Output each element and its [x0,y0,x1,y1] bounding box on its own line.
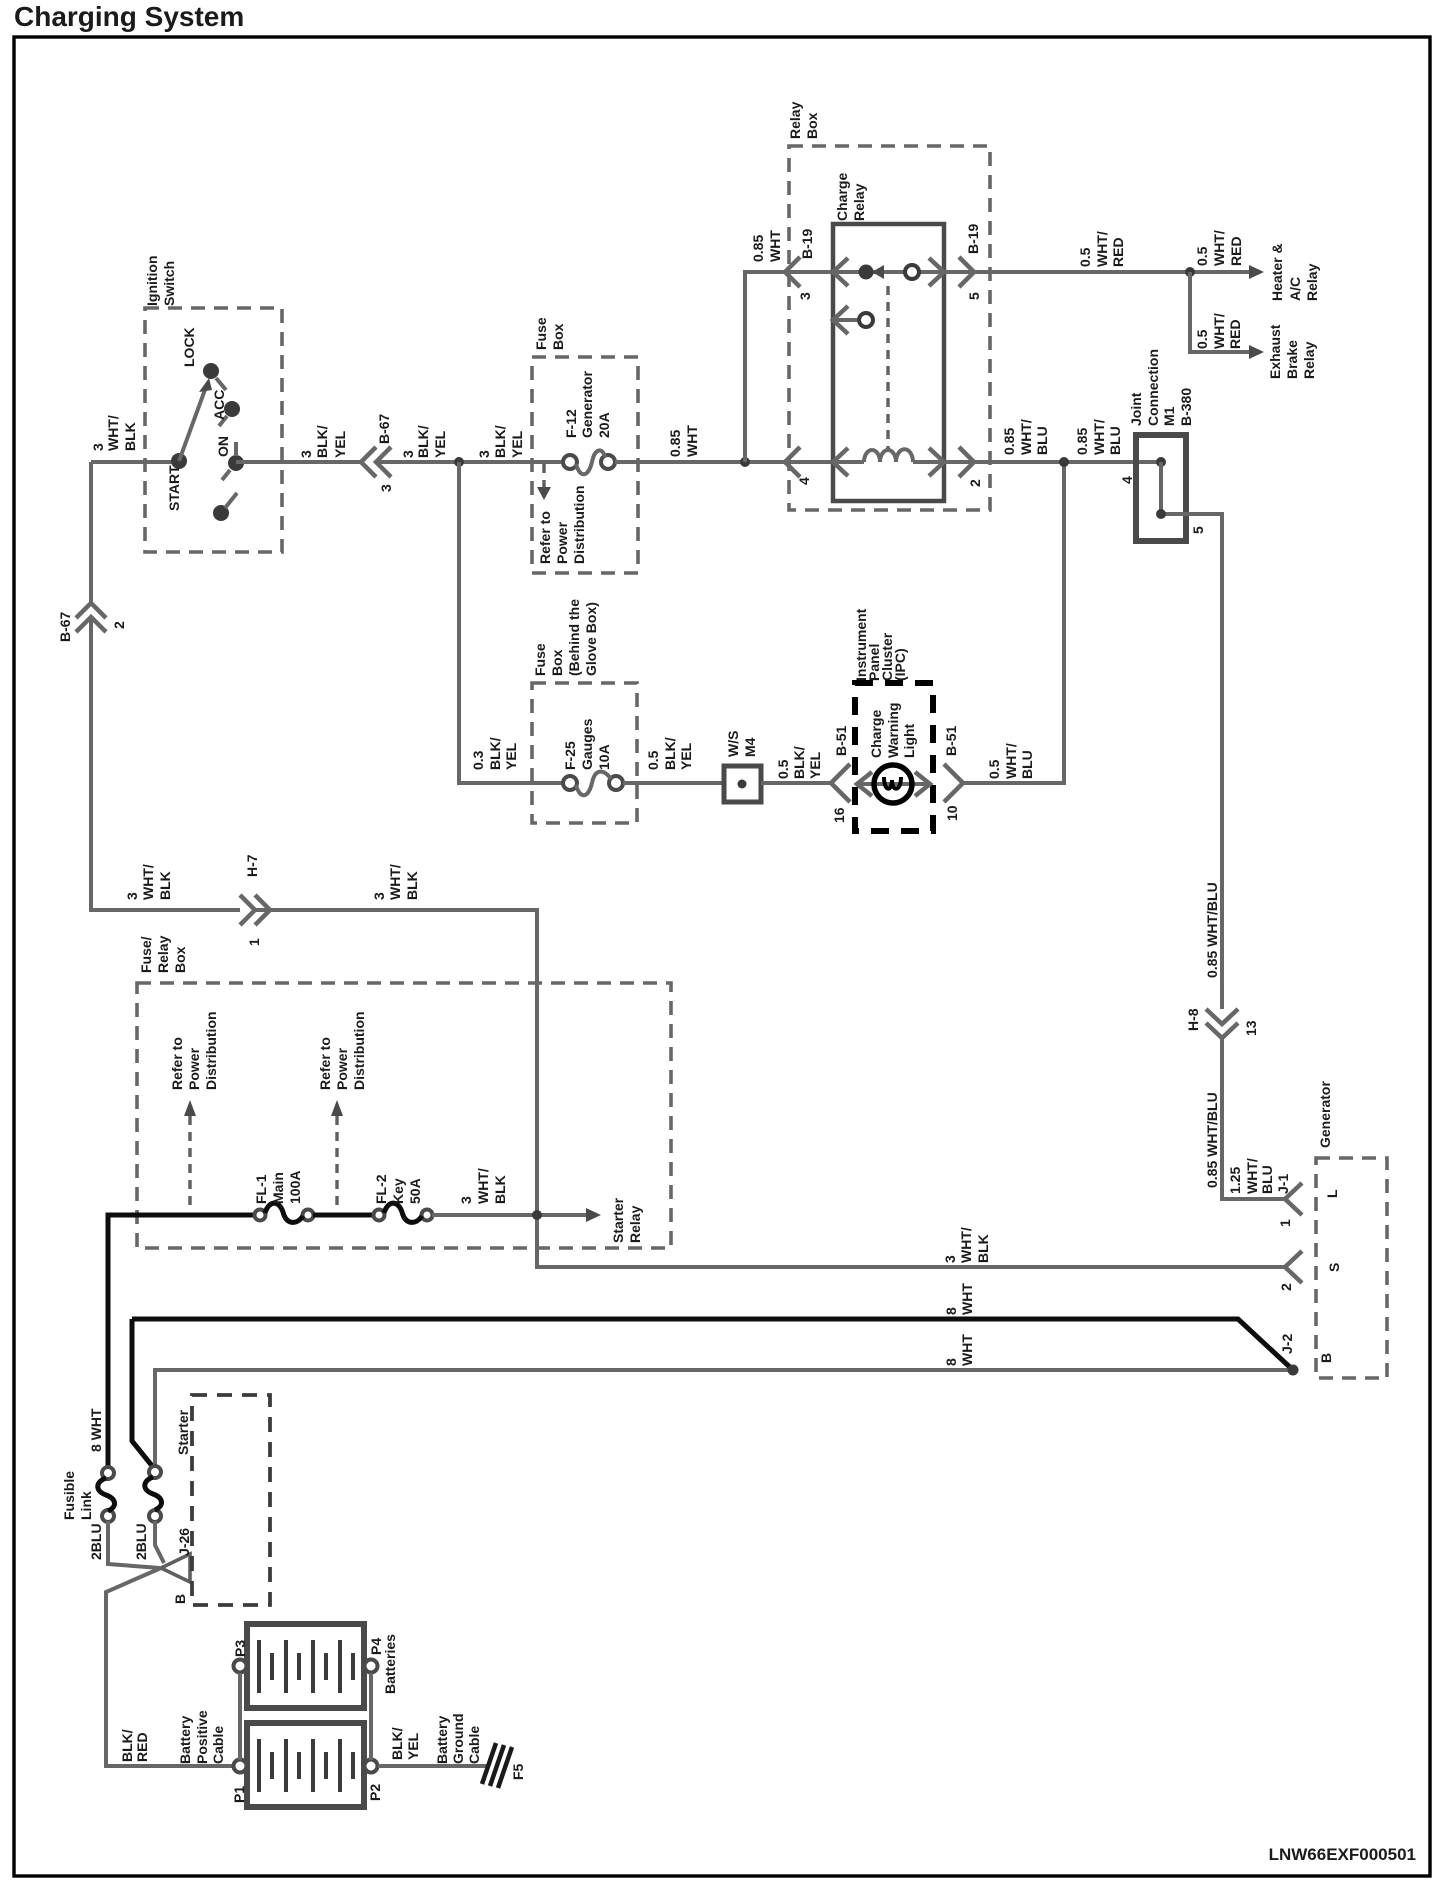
battery 1 (lower) box [247,1723,364,1807]
connector B-51 pin 10 (chevron) [944,764,963,802]
fuse box behind glove box (dashed) [532,683,637,823]
relay alternate contact [833,318,858,322]
svg-text:Relay: Relay [1304,263,1320,301]
fusible link label [61,1471,94,1520]
ground symbol F5 [482,1743,512,1788]
svg-text:4: 4 [1119,476,1135,484]
svg-text:0.85: 0.85 [667,430,683,457]
svg-text:5: 5 [966,292,982,300]
wire label 0.5 BLK/YEL (before splice) [645,737,694,770]
M1 internal link [1156,457,1166,467]
svg-text:Batteries: Batteries [382,1634,398,1694]
svg-text:Starter: Starter [610,1197,626,1243]
relay box (dashed) [789,146,990,510]
svg-text:0.5: 0.5 [986,759,1002,779]
fuse/relay box label [138,935,188,973]
svg-text:2BLU: 2BLU [88,1523,104,1560]
fuse box (dashed) [532,357,638,573]
wire label 3 WHT/BLK (starter relay feed) [458,1168,508,1204]
refer-to-power-distribution arrow 2 (up, dashed) [331,1100,343,1116]
fusible link FL-1 Main 100A [255,1210,266,1221]
svg-text:B-51: B-51 [833,725,849,756]
exhaust brake relay destination label [1267,324,1317,379]
svg-text:Cable: Cable [210,1726,226,1764]
svg-text:Battery: Battery [434,1716,450,1764]
splice W/S M4 [724,766,761,802]
svg-text:YEL: YEL [405,1732,421,1760]
svg-text:F-12: F-12 [563,409,579,438]
wire label 3 WHT/BLK (after H-7) [371,864,420,900]
svg-text:Relay: Relay [1301,341,1317,379]
svg-text:3: 3 [797,292,813,300]
instrument panel cluster label [853,608,908,681]
battery 2 (upper) box [247,1624,364,1708]
svg-text:2: 2 [1278,1283,1294,1291]
connector B-19 pin 4 (chevron at relay box edge) [785,447,800,477]
svg-text:2: 2 [967,479,983,487]
svg-text:1.25: 1.25 [1227,1167,1243,1194]
contact START [213,505,229,521]
svg-text:Refer to: Refer to [537,511,553,564]
svg-text:YEL: YEL [332,430,348,458]
svg-text:YEL: YEL [509,430,525,458]
wire: ignition pivot to left edge [91,460,179,464]
svg-text:FL-1: FL-1 [253,1174,269,1204]
fusible link FL-2 Key 50A [374,1210,385,1221]
charge relay body [833,224,944,501]
joint connection M1 B-380 box [1136,435,1186,541]
connector B-67 (in-line, double chevron) [361,447,376,477]
svg-text:8: 8 [943,1358,959,1366]
svg-text:B-380: B-380 [1178,388,1194,426]
heavy feed wire into FL-1 [108,1215,255,1468]
heavy wire: 8 WHT from fusible link 2 to generator B (J-2) [132,1319,1293,1370]
fuse box label [533,317,566,350]
svg-text:BLK/: BLK/ [119,1729,135,1762]
svg-text:WHT: WHT [959,1334,975,1366]
junction node (charge light tap) [1059,457,1069,467]
svg-text:BLK: BLK [975,1234,991,1263]
svg-text:0.3: 0.3 [470,750,486,770]
svg-text:Relay: Relay [787,101,803,139]
svg-text:B-51: B-51 [943,725,959,756]
svg-text:Power: Power [554,521,570,564]
battery 2 plates [259,1640,353,1693]
svg-text:1: 1 [246,938,262,946]
svg-text:YEL: YEL [432,430,448,458]
svg-text:BLK/: BLK/ [791,746,807,779]
svg-text:BLK/: BLK/ [389,1727,405,1760]
svg-text:Generator: Generator [1317,1081,1333,1148]
svg-text:100A: 100A [287,1171,303,1204]
wire: H-8 down to generator L [1222,1038,1284,1199]
svg-text:B-67: B-67 [376,413,392,444]
relay contact row (pin3-pin5) [833,270,944,274]
wire: B-67 to F-12 fuse [376,460,563,464]
wire label 3 WHT/BLK (left of ignition) [90,415,138,451]
svg-text:Heater &: Heater & [1269,243,1285,301]
svg-text:WHT/: WHT/ [1003,743,1019,779]
wire: P4 to P2 parallel link [369,1673,373,1760]
wire: continue down then right to H-7 [91,617,240,910]
svg-text:RED: RED [1110,237,1126,267]
svg-text:P3: P3 [232,1640,248,1657]
svg-text:2: 2 [111,621,127,629]
wire: P2 to ground [378,1764,489,1768]
svg-text:16: 16 [831,807,847,823]
svg-text:Ground: Ground [450,1713,466,1764]
wire label 0.3 BLK/YEL [470,737,519,770]
svg-text:B: B [172,1594,188,1604]
svg-text:(Behind the: (Behind the [566,599,582,676]
svg-text:3: 3 [458,1196,474,1204]
wire label 0.5 WHT/BLU [986,743,1035,779]
svg-text:3: 3 [298,450,314,458]
svg-text:Positive: Positive [194,1710,210,1764]
relay actuator link (dashed) [886,286,889,452]
svg-text:A/C: A/C [1287,277,1303,301]
svg-text:M1: M1 [1161,406,1177,426]
wire: F-12 to relay box branch junction [615,460,833,464]
svg-text:J-2: J-2 [1279,1334,1295,1354]
svg-text:50A: 50A [407,1178,423,1204]
svg-text:B-67: B-67 [57,611,73,642]
junction node (0.3 BLK/YEL tap) [454,457,464,467]
svg-text:Charging System: Charging System [14,1,244,32]
svg-text:WHT/: WHT/ [140,864,156,900]
wire through IPC with outward arrows [856,782,931,786]
svg-text:H-7: H-7 [244,854,260,877]
svg-text:B: B [1318,1353,1334,1363]
svg-text:Brake: Brake [1284,340,1300,379]
wire: FL-2 to starter relay arrow [432,1213,590,1217]
wire: branch to exhaust brake relay arrow [1190,272,1253,352]
svg-text:YEL: YEL [678,742,694,770]
svg-text:0.85 WHT/BLU: 0.85 WHT/BLU [1204,882,1220,978]
wire label BLK/RED [119,1729,150,1762]
wire: link 1 to J-26 [108,1521,160,1568]
junction node at x537 on FL-2 output [532,1210,542,1220]
contact LOCK [203,363,219,379]
wire label 0.5 WHT/RED (after junction) [1194,230,1244,266]
svg-text:BLK/: BLK/ [662,737,678,770]
svg-text:H-8: H-8 [1185,1008,1201,1031]
svg-text:Glove Box): Glove Box) [583,602,599,676]
svg-text:WHT/: WHT/ [1018,419,1034,455]
connector B-19 pin 2 (chevron at relay box edge) [959,447,974,477]
svg-text:BLU: BLU [1034,426,1050,455]
svg-text:Fusible: Fusible [61,1471,77,1520]
wire: pin 2 to joint connection M1 [944,460,1157,464]
battery ground cable label [434,1713,482,1764]
wire: P3 to P1 parallel link [238,1673,242,1760]
connector B-67 (vertical, double chevron up) [76,603,106,618]
svg-text:Distribution: Distribution [203,1011,219,1090]
svg-text:8 WHT: 8 WHT [88,1408,104,1452]
generator box (dashed) [1316,1158,1387,1378]
terminal P2 [365,1760,378,1773]
battery positive cable label [177,1710,226,1764]
heavy wire: drop to fusible link 2 [132,1319,153,1467]
wire label 1.25 WHT/BLU and connector J-1 [1227,1158,1291,1194]
svg-text:Relay: Relay [155,935,171,973]
fuse/relay box (dashed) [137,983,671,1248]
svg-text:FL-2: FL-2 [373,1174,389,1204]
svg-text:Refer to: Refer to [317,1037,333,1090]
wire label 8 WHT (parallel run) [943,1334,975,1366]
connector J-26 (triangle) [161,1554,190,1582]
svg-text:Ignition: Ignition [144,255,160,306]
svg-text:BLK: BLK [122,422,138,451]
svg-text:(IPC): (IPC) [892,648,908,681]
wire label BLK/YEL [389,1727,421,1760]
svg-text:Gauges: Gauges [579,718,595,770]
svg-text:WHT/: WHT/ [1244,1158,1260,1194]
svg-text:3: 3 [942,1255,958,1263]
svg-text:5: 5 [1190,526,1206,534]
relay box label [787,101,820,139]
svg-text:Fuse: Fuse [532,643,548,676]
svg-text:0.85 WHT/BLU: 0.85 WHT/BLU [1204,1092,1220,1188]
svg-text:Refer to: Refer to [169,1037,185,1090]
svg-text:Box: Box [804,112,820,139]
svg-text:WHT/: WHT/ [1091,419,1107,455]
svg-text:RED: RED [134,1732,150,1762]
wire: pin 5 to heater A/C relay arrow [944,270,1253,274]
svg-text:3: 3 [124,892,140,900]
svg-text:M4: M4 [742,737,758,757]
fuse F-12 Generator 20A [563,455,577,469]
relay coil row (pin4-pin2) [833,460,864,464]
fusible link 2 [149,1466,161,1478]
connector H-8 (vertical, double chevron down) [1206,1009,1238,1024]
svg-text:YEL: YEL [503,742,519,770]
svg-text:YEL: YEL [807,751,823,779]
svg-text:BLK: BLK [157,871,173,900]
wire label 0.85 WHT (after F-12) [667,425,700,457]
wire: B-51 pin10 right then up to junction [963,462,1064,783]
svg-text:P2: P2 [367,1784,383,1801]
svg-text:Box: Box [172,946,188,973]
fuse box (behind the glove box) label [532,599,599,676]
wire label 3 BLK/YEL (after B-67) [400,425,448,458]
svg-text:0.5: 0.5 [1194,329,1210,349]
svg-text:S: S [1326,1263,1342,1272]
svg-text:Fuse/: Fuse/ [138,936,154,973]
svg-text:Power: Power [186,1047,202,1090]
svg-text:Box: Box [549,649,565,676]
svg-text:Distribution: Distribution [351,1011,367,1090]
svg-text:LOCK: LOCK [181,327,197,367]
wire label 8 WHT (heavy run) [943,1283,975,1315]
svg-text:Connection: Connection [1145,349,1161,426]
svg-text:0.85: 0.85 [750,235,766,262]
svg-text:BLK/: BLK/ [487,737,503,770]
instrument panel cluster box (heavy dashed) [855,683,933,831]
svg-text:Relay: Relay [851,183,867,221]
svg-text:Relay: Relay [627,1205,643,1243]
svg-text:Fuse: Fuse [533,317,549,350]
wire label 3 WHT/BLK (before H-7) [124,864,173,900]
wire: F-25 to W/S M4 splice [623,781,724,785]
charge warning light label [868,703,917,758]
svg-text:B-19: B-19 [799,228,815,259]
svg-text:L: L [1324,1189,1340,1198]
svg-text:0.85: 0.85 [1001,428,1017,455]
svg-text:1: 1 [1277,1219,1293,1227]
svg-text:WHT/: WHT/ [475,1168,491,1204]
starter box (dashed) [192,1395,270,1605]
wire label 3 BLK/YEL (before B-67) [298,425,348,458]
wire: 8 WHT parallel run to generator B [155,1370,1293,1467]
wire: link 2 to J-26 [155,1521,164,1563]
connector B-19 pin 3 (chevron at relay box edge) [785,257,800,287]
svg-text:WHT/: WHT/ [105,415,121,451]
svg-text:Distribution: Distribution [571,485,587,564]
svg-text:Power: Power [334,1047,350,1090]
svg-text:BLU: BLU [1107,426,1123,455]
svg-text:2BLU: 2BLU [133,1523,149,1560]
svg-text:Joint: Joint [1128,392,1144,426]
svg-text:RED: RED [1228,236,1244,266]
junction node for exhaust brake branch [1185,267,1195,277]
svg-text:LNW66EXF000501: LNW66EXF000501 [1269,1845,1416,1864]
svg-text:Exhaust: Exhaust [1267,324,1283,379]
svg-text:BLU: BLU [1259,1165,1275,1194]
ignition switch lever with arrow [179,387,206,461]
node at generator B terminal [1288,1365,1299,1376]
svg-text:WHT: WHT [684,425,700,457]
svg-text:10A: 10A [596,744,612,770]
ignition switch label [144,255,177,306]
fusible link 1 [102,1467,114,1479]
svg-text:3: 3 [371,892,387,900]
svg-text:8: 8 [943,1307,959,1315]
wire: branch up to charge relay pin 3 [745,272,833,462]
svg-text:Key: Key [390,1178,406,1204]
svg-text:START: START [166,465,182,511]
wire: splice to B-51 [761,781,830,785]
svg-text:Light: Light [901,723,917,758]
svg-text:B-19: B-19 [965,223,981,254]
svg-text:3: 3 [476,450,492,458]
svg-text:WHT/: WHT/ [1094,231,1110,267]
svg-text:Main: Main [270,1172,286,1204]
svg-text:BLU: BLU [1019,750,1035,779]
svg-text:Box: Box [550,323,566,350]
wire: 0.3 BLK/YEL tap down to F-25 [459,462,563,783]
junction node at relay feed split [740,457,750,467]
svg-text:0.5: 0.5 [1077,247,1093,267]
svg-text:Generator: Generator [579,371,595,438]
svg-text:13: 13 [1243,1020,1259,1036]
wire: down left side from ignition [89,462,93,603]
wire label 0.85 WHT (pin 3 branch) [750,230,783,262]
connector H-7 (in-line, double chevron right) [240,895,255,925]
svg-text:3: 3 [90,443,106,451]
wire label 0.5 WHT/RED (exhaust branch) [1194,313,1243,349]
svg-text:WHT: WHT [767,230,783,262]
wire label 3 WHT/BLK (to generator S) [942,1227,991,1263]
heavy wire FL-1 to FL-2 [313,1213,374,1218]
starter relay destination label [610,1197,643,1243]
svg-text:ON: ON [215,436,231,457]
ignition switch pivot contact [171,453,187,469]
wire: J-26 down to battery positive [106,1568,234,1766]
charge relay label [834,173,867,221]
svg-text:BLK: BLK [404,871,420,900]
svg-text:Switch: Switch [161,261,177,306]
wire: H-7 to vertical drop at x=537 [255,910,1284,1267]
connector B-19 pin 5 (chevron at relay box edge) [959,257,974,287]
svg-text:RED: RED [1227,319,1243,349]
svg-text:Link: Link [78,1491,94,1520]
terminal P3 [234,1660,247,1673]
svg-text:P1: P1 [231,1786,247,1803]
svg-text:0.5: 0.5 [645,750,661,770]
wire label 0.5 BLK/YEL (before IPC) [775,746,823,779]
svg-text:Charge: Charge [868,710,884,758]
svg-text:BLK/: BLK/ [415,425,431,458]
svg-text:J-26: J-26 [176,1528,192,1556]
svg-text:10: 10 [944,805,960,821]
terminal P4 [365,1660,378,1673]
joint connection label [1128,349,1194,426]
wire label 3 BLK/YEL (before fuse box) [476,425,525,458]
svg-text:WHT/: WHT/ [1211,313,1227,349]
svg-text:WHT/: WHT/ [958,1227,974,1263]
wire label 0.85 WHT/BLU (before M1) [1074,419,1123,455]
svg-text:BLK/: BLK/ [492,425,508,458]
svg-text:3: 3 [378,484,394,492]
svg-text:Starter: Starter [175,1409,191,1455]
svg-text:3: 3 [400,450,416,458]
svg-text:W/S: W/S [725,731,741,757]
svg-text:20A: 20A [596,412,612,438]
connector for generator S (chevron) [1285,1251,1302,1283]
svg-text:0.5: 0.5 [1194,246,1210,266]
contact ACC [224,401,240,417]
svg-text:Warning: Warning [885,703,901,758]
heater and A/C relay destination label [1269,243,1320,301]
terminal P1 [234,1760,247,1773]
battery 1 plates [259,1739,353,1792]
charge warning light lamp [874,765,912,803]
refer-to-power-distribution arrow (down pointing, dashed) [542,464,545,487]
wire label 0.85 WHT/BLU (after pin 2) [1001,419,1050,455]
wire label 0.5 WHT/RED (heater branch) [1077,231,1126,267]
svg-text:ACC: ACC [211,390,227,420]
svg-text:WHT/: WHT/ [387,864,403,900]
refer-to-power-distribution arrow 1 (up, dashed) [184,1100,196,1116]
contact ON [228,455,244,471]
svg-text:4: 4 [796,477,812,485]
wire: ON contact to B-67 connector [236,460,360,464]
svg-text:J-1: J-1 [1275,1174,1291,1194]
svg-text:Battery: Battery [177,1716,193,1764]
fuse F-25 Gauges 10A [563,776,577,790]
svg-text:Charge: Charge [834,173,850,221]
svg-text:0.5: 0.5 [775,759,791,779]
svg-text:BLK/: BLK/ [314,425,330,458]
connector B-51 pin 16 (chevron) [831,764,850,802]
svg-text:0.85: 0.85 [1074,428,1090,455]
connector J-1 (chevron into generator) [1285,1183,1302,1215]
ignition switch box (dashed) [145,308,282,552]
svg-text:Cable: Cable [466,1726,482,1764]
svg-text:BLK: BLK [492,1175,508,1204]
svg-text:F-25: F-25 [562,741,578,770]
